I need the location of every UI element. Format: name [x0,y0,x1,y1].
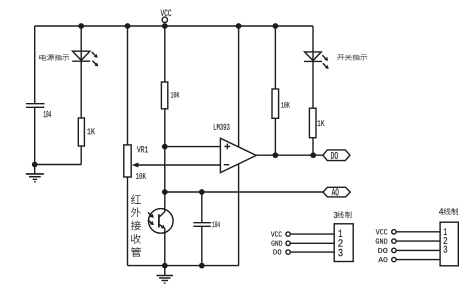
J1 pin number 2 [338,239,342,246]
label 红外接收管 IR receiver (vertical) [131,194,141,256]
label 3线制 3-wire [334,211,352,218]
LED D1 power indicator diode [72,51,90,61]
wire op-amp power rail down [238,26,240,266]
label 开关指示 switch indicator [337,55,367,61]
J2 pin DO [378,248,440,253]
J2 pin number 3 [443,246,447,253]
label 4线制 4-wire [439,208,458,215]
Q1 incoming light arrows [148,212,154,218]
resistor R3 10K pull-up [272,89,290,118]
J1 pin DO [273,249,334,254]
wire VCC rail to R2 [164,26,166,82]
connector J2 4-wire box [440,222,458,266]
wire AO node to capacitor C2 [201,192,203,222]
wire VCC top rail [35,25,313,27]
node VCC rail junction at VR1 [125,23,131,29]
J1 pin number 3 [338,249,342,256]
J2 pin AO [378,257,440,262]
J2 pin number 2 [443,237,447,244]
node left ground junction [32,162,38,168]
resistor R1 1K [78,118,95,146]
VCC power symbol [161,9,172,22]
J1 pin number 1 [339,230,342,237]
J2 pin number 1 [444,228,447,235]
LED D1 light arrows [92,52,98,58]
node Q1 emitter ground rail junction [162,263,168,269]
node C2 top junction [199,189,205,195]
phototransistor Q1 [149,209,174,266]
capacitor C1 104 [26,104,51,118]
net flag DO [323,150,350,161]
node VCC rail junction at op-amp supply [236,23,242,29]
wire left branch down to C1 [34,26,36,103]
wire op-amp output to DO [256,154,323,156]
wire bottom ground rail [128,265,239,267]
J1 pin GND [271,241,334,246]
node divider junction [162,144,168,150]
ground symbol middle [157,266,174,283]
resistor R4 1K [309,108,324,138]
label 电源指示 power indicator [39,55,69,61]
LED D2 light arrows [322,55,328,61]
node VCC rail junction at R2 [162,23,168,29]
wire VCC rail to R3 pull-up [274,26,276,89]
wire VCC rail corner to LED2 [312,26,314,108]
wire R2 to divider node [164,109,166,209]
node AO junction [162,189,168,195]
ground symbol left [26,165,44,182]
node DO junction R4 [310,152,316,158]
J2 pin VCC [376,229,440,234]
connector J1 3-wire box [334,224,353,262]
VR1 wiper arrow to op-amp inverting input [132,163,221,168]
wire VCC rail to LED1 [80,26,82,118]
LED D2 switch indicator diode [304,52,322,62]
wire R3 to DO node [274,118,276,155]
node VCC rail junction at R3 [273,23,279,29]
net flag AO [323,187,350,197]
wire R1 bottom to ground node [35,164,81,166]
node DO junction R3 [273,152,279,158]
wire VR1 bottom to ground rail [127,177,129,266]
capacitor C2 104 [193,221,220,227]
wire node to op-amp non-inverting input [165,146,221,148]
wire AO line [165,191,323,193]
J2 pin GND [376,239,440,244]
wire R1 to ground wire [80,146,82,165]
resistor R2 10K [161,82,179,109]
wire C2 to ground rail [201,227,203,266]
node C2 bottom junction [199,263,205,269]
wire VCC rail to VR1 [127,26,129,145]
wire C1 to ground node [34,108,36,165]
J1 pin VCC [271,231,334,236]
potentiometer VR1 10K body [124,145,148,179]
node VCC rail junction at LED1 [78,23,84,29]
op-amp U1 LM393 [214,124,256,173]
wire R4 to DO node [312,138,314,156]
